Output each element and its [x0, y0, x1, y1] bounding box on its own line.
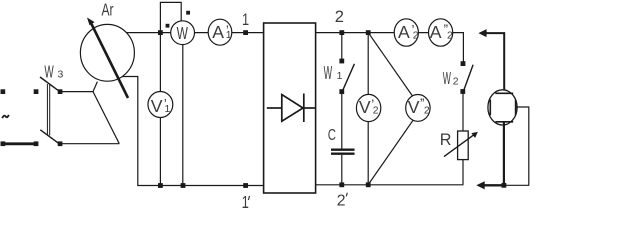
wire capacitor C to node 2': [341, 155, 343, 185]
svg-text:2: 2: [335, 7, 344, 26]
svg-text:V: V: [151, 96, 163, 116]
ammeter A''2: [429, 19, 454, 46]
node 1': [242, 183, 250, 212]
wire switch W3 to Ar winding (bottom): [60, 143, 119, 145]
svg-text:1: 1: [337, 71, 343, 82]
switch W3 linkage bar: [47, 84, 49, 136]
node 2': [337, 182, 348, 209]
svg-text:V: V: [359, 97, 371, 117]
supply terminal lower-left: [1, 141, 6, 146]
label W2: [443, 68, 459, 88]
wire wattmeter bottom branch: [182, 33, 184, 186]
label W3: [44, 63, 63, 83]
svg-text:W: W: [177, 24, 189, 44]
oscilloscope bottom lead with arrow: [476, 181, 504, 189]
svg-text:W: W: [443, 68, 452, 88]
wire resistor R to bottom bus: [462, 160, 464, 185]
switch W2 upper contact: [461, 61, 466, 66]
svg-text:1: 1: [242, 10, 249, 29]
wattmeter polarity mark top: [186, 11, 190, 15]
switch W2 blade: [464, 65, 474, 91]
wire Ar tap slant down: [93, 92, 119, 144]
junction dot oscilloscope bottom: [502, 183, 507, 188]
wire bottom bus left: [137, 185, 264, 187]
wire node 2 to switch W1: [341, 33, 343, 61]
svg-text:2: 2: [447, 30, 453, 41]
rectifier block: [264, 23, 316, 193]
svg-text:3: 3: [58, 70, 64, 81]
wire switch W3 to Ar winding (top): [60, 91, 93, 93]
svg-text:W: W: [44, 63, 54, 83]
node 2: [335, 7, 344, 35]
svg-text:2: 2: [373, 106, 379, 117]
svg-text:2: 2: [413, 30, 419, 41]
svg-text:Ar: Ar: [102, 1, 114, 20]
junction dot wattmeter voltage tap: [158, 30, 163, 35]
wire V''2 slant top: [368, 33, 413, 98]
junction dot V'1 bottom: [158, 183, 163, 188]
oscilloscope bottom stem: [503, 122, 505, 186]
svg-text:1: 1: [165, 104, 171, 115]
svg-text:W: W: [324, 64, 333, 84]
svg-text:V: V: [408, 97, 420, 117]
wire V'2 branch vertical: [367, 33, 369, 185]
oscilloscope top lead with arrow: [478, 29, 504, 93]
switch W1 upper contact: [339, 59, 344, 64]
wattmeter polarity mark left: [166, 24, 170, 28]
switch W3 upper blade: [40, 77, 59, 91]
switch W3 lower blade: [40, 130, 58, 144]
wire top bus right (rectifier output 2 to W2): [316, 33, 464, 64]
voltmeter V'2: [356, 94, 380, 121]
svg-text:C: C: [328, 125, 336, 143]
switch W3 lower fixed contact: [34, 141, 39, 146]
supply terminal upper-left: [1, 89, 6, 94]
svg-text:1: 1: [242, 193, 249, 212]
node 1: [242, 10, 249, 35]
wire wattmeter voltage-coil loop: [160, 2, 181, 32]
capacitor C: [331, 150, 355, 154]
ammeter A'1: [208, 19, 232, 45]
voltmeter V''2: [406, 95, 430, 122]
wire Ar input tap slant to winding: [93, 82, 97, 92]
svg-text:2: 2: [453, 76, 459, 87]
switch W3 upper moving contact: [58, 89, 63, 94]
junction dot wattmeter bottom: [181, 183, 186, 188]
svg-text:A: A: [398, 22, 410, 42]
wire Ar wiper output to bottom bus: [122, 77, 138, 186]
switch W1 lower contact: [339, 89, 344, 94]
svg-text:R: R: [440, 131, 452, 149]
ammeter A'2: [394, 19, 419, 46]
wire bottom bus right: [316, 184, 464, 186]
switch W3 lower moving contact: [58, 141, 63, 146]
wire oscilloscope right plate loop: [505, 107, 529, 185]
svg-text:A: A: [212, 22, 224, 42]
autotransformer Ar: [80, 18, 134, 99]
diode D1: [267, 94, 315, 123]
wire V''2 slant bottom: [368, 118, 414, 184]
svg-text:2: 2: [337, 192, 346, 209]
wire switch W1 to capacitor C: [341, 92, 343, 149]
voltmeter V'1: [148, 92, 173, 118]
svg-text:A: A: [430, 22, 442, 42]
switch W3 upper fixed contact: [34, 89, 39, 94]
wire switch W2 to resistor R: [462, 92, 464, 132]
junction dot V'2 bottom: [366, 182, 371, 187]
svg-text:2: 2: [424, 106, 430, 117]
switch W1 blade: [343, 64, 354, 90]
svg-text:1: 1: [226, 30, 232, 41]
wire supply to switch W3 lower pole (thick): [2, 142, 37, 145]
wattmeter W: [171, 21, 195, 45]
switch W2 lower contact: [460, 89, 465, 94]
wire V'1 branch vertical: [159, 33, 161, 186]
oscilloscope tube: [488, 90, 517, 125]
AC source symbol ~: [2, 115, 9, 118]
wire top bus left (Ar to rectifier input 1): [124, 32, 264, 34]
resistor R (variable): [444, 131, 478, 160]
junction dot V'2 top: [366, 30, 371, 35]
label W1: [324, 64, 343, 84]
